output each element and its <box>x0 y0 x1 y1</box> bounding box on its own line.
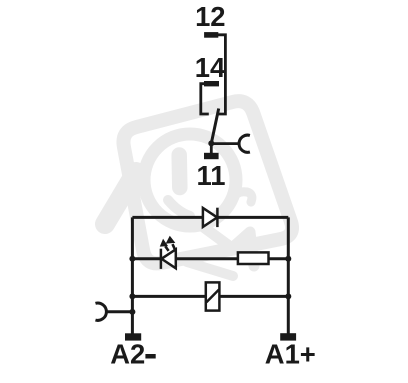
node left coil row <box>129 293 135 299</box>
node right resistor row <box>285 256 291 262</box>
relay coil K1 <box>206 282 220 310</box>
node switch common <box>208 140 214 146</box>
svg-text:A2: A2 <box>110 339 145 370</box>
node right coil row <box>285 293 291 299</box>
svg-text:14: 14 <box>195 52 226 83</box>
wire 12 to fixed contact <box>217 35 226 114</box>
socket contact top <box>239 135 250 152</box>
wire top branch <box>132 216 288 219</box>
svg-text:12: 12 <box>195 1 225 32</box>
resistor R1 <box>238 252 269 264</box>
socket contact A2 <box>95 303 106 320</box>
terminal 14 <box>204 81 219 86</box>
wire coil row <box>132 295 288 298</box>
switch arm contact 11 <box>211 109 218 144</box>
wire common to terminal 11 <box>210 143 213 153</box>
wire left rail <box>131 217 134 333</box>
terminal A2 <box>125 333 141 340</box>
terminal A1 <box>280 333 296 340</box>
LED <box>161 249 176 269</box>
svg-text:11: 11 <box>197 160 226 191</box>
LED arrows <box>161 237 176 251</box>
diode V1 <box>203 208 218 227</box>
wire LED row <box>132 257 288 260</box>
wire 14 to fixed contact <box>201 84 209 114</box>
wire common to socket <box>211 142 239 145</box>
svg-text:A1+: A1+ <box>265 338 316 369</box>
wire right rail <box>287 217 290 333</box>
terminal 11 <box>204 153 219 159</box>
node left LED row <box>129 256 135 262</box>
wire socket row A2 <box>106 310 132 313</box>
terminal 12 <box>204 32 218 38</box>
node left socket row <box>129 309 135 315</box>
watermark <box>105 101 292 276</box>
